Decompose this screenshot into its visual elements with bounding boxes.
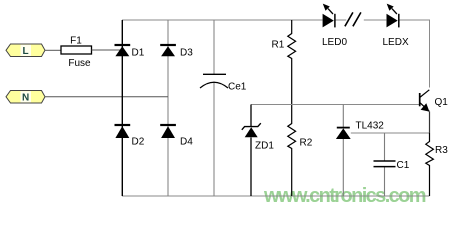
wire TL432 ref to emitter xyxy=(351,132,430,134)
diode D3 xyxy=(160,45,193,59)
LED LED0 xyxy=(322,4,347,48)
svg-text:LED0: LED0 xyxy=(322,37,347,48)
bottom rail wire xyxy=(122,195,430,197)
LED LEDX xyxy=(383,4,409,48)
svg-text:TL432: TL432 xyxy=(356,121,385,132)
wire N to bridge xyxy=(45,96,168,98)
resistor R3 xyxy=(426,133,448,196)
top rail wire xyxy=(122,20,430,88)
resistor R2 xyxy=(288,105,313,197)
svg-text:F1: F1 xyxy=(70,36,82,47)
node L port xyxy=(6,44,45,57)
svg-text:D3: D3 xyxy=(180,48,193,59)
svg-text:Q1: Q1 xyxy=(435,97,449,108)
svg-text:D4: D4 xyxy=(180,137,193,148)
svg-text:R3: R3 xyxy=(435,145,448,156)
svg-text:N: N xyxy=(22,93,29,104)
diode D2 xyxy=(115,125,145,148)
shunt reference TL432 xyxy=(336,105,384,197)
svg-text:Ce1: Ce1 xyxy=(228,82,247,93)
svg-text:R2: R2 xyxy=(300,138,313,149)
svg-text:C1: C1 xyxy=(397,160,410,171)
transistor Q1 xyxy=(420,90,449,133)
watermark www.cntronics.com xyxy=(263,185,426,207)
diode D4 xyxy=(160,125,193,148)
capacitor C1 xyxy=(374,133,410,196)
zener ZD1 xyxy=(242,105,275,197)
svg-text:LEDX: LEDX xyxy=(383,37,409,48)
svg-text:R1: R1 xyxy=(272,40,285,51)
fuse F1 xyxy=(61,36,92,70)
wire L to fuse xyxy=(45,49,61,51)
svg-text:ZD1: ZD1 xyxy=(255,141,274,152)
svg-text:Fuse: Fuse xyxy=(68,58,91,69)
break marks // xyxy=(345,12,361,26)
wire Ce1 leg xyxy=(213,20,215,196)
wire mid rail (ZD1 to Q1 base) xyxy=(251,104,420,106)
node N port xyxy=(6,91,45,104)
resistor R1 xyxy=(272,20,296,105)
right leg wire D3/D4 xyxy=(167,20,169,196)
svg-text:D2: D2 xyxy=(132,137,145,148)
capacitor Ce1 xyxy=(200,74,247,92)
left leg (D1/D2 branch) xyxy=(121,20,123,196)
svg-text:D1: D1 xyxy=(132,48,145,59)
wire fuse to D1 xyxy=(92,49,121,51)
diode D1 xyxy=(115,45,145,59)
svg-text:L: L xyxy=(23,46,29,57)
